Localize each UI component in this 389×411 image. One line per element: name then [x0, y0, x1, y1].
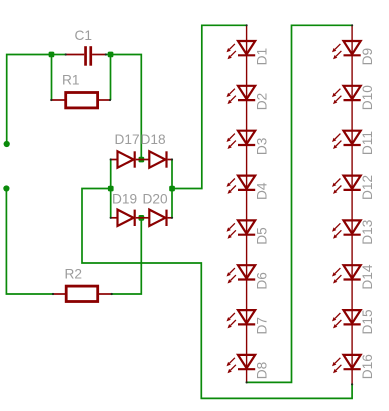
- junction: bridge top-middle node: [139, 157, 145, 163]
- LED D10: [332, 86, 361, 104]
- LED D8: [227, 355, 256, 373]
- wire: junction down to R1 left pin: [51, 55, 53, 101]
- wire: LED column 1 pins (D1-D8 lead): [246, 25, 248, 382]
- diode D18: [141, 151, 172, 167]
- LED D15: [332, 310, 361, 328]
- capacitor C1: [66, 46, 106, 65]
- svg-text:D14: D14: [360, 264, 375, 289]
- svg-text:D13: D13: [360, 219, 375, 244]
- wire: junction to C1 left pin: [52, 54, 66, 56]
- LED D12: [332, 176, 361, 194]
- svg-text:D11: D11: [360, 131, 375, 155]
- svg-text:D12: D12: [360, 175, 375, 200]
- node AC1 terminal: [4, 141, 10, 147]
- LED D5: [227, 220, 256, 238]
- svg-text:D7: D7: [254, 317, 269, 335]
- svg-text:D6: D6: [254, 272, 269, 290]
- LED D11: [332, 131, 361, 149]
- wire: R2 right pin to bridge bottom-middle: [112, 218, 142, 294]
- diode D17: [111, 151, 142, 167]
- junction: C1/R1 left node: [49, 52, 55, 58]
- wire DC-: bridge left node to D16 cathode return: [82, 189, 352, 399]
- LED D16: [332, 355, 361, 373]
- svg-text:D10: D10: [360, 85, 375, 110]
- svg-text:R2: R2: [65, 267, 83, 282]
- svg-text:D3: D3: [254, 137, 269, 155]
- wire DC+: bridge right node to D1 anode: [172, 25, 247, 188]
- LED D2: [227, 86, 256, 104]
- LED D9: [332, 41, 361, 59]
- LED D13: [332, 220, 361, 238]
- pin connection dots: [50, 24, 353, 385]
- wire: D8 cathode to D9 anode: [247, 25, 353, 382]
- wire: bridge left side vertical: [110, 160, 112, 218]
- wire AC1: terminal to C1/R1 left junction: [7, 55, 52, 145]
- junction: bridge bottom-middle node: [139, 215, 145, 221]
- node AC2 terminal: [3, 185, 9, 191]
- LED D14: [332, 265, 361, 283]
- diode D20: [141, 210, 172, 226]
- svg-text:D18: D18: [141, 132, 166, 147]
- diode D19: [111, 210, 142, 226]
- svg-text:R1: R1: [62, 73, 80, 88]
- svg-text:D16: D16: [360, 354, 375, 379]
- resistor R2: [53, 286, 112, 301]
- junction: bridge left node: [108, 186, 114, 192]
- wire: LED column 2 pins (D9-D16 lead): [351, 25, 353, 384]
- wire AC2: terminal down to R2 left pin: [6, 189, 53, 295]
- LED D3: [227, 131, 256, 149]
- wire: C1 right pin to junction to bridge top-middle: [106, 55, 142, 160]
- LED D4: [227, 176, 256, 194]
- junction: C1/R1 right node: [108, 52, 114, 58]
- LED D7: [227, 310, 256, 328]
- svg-text:C1: C1: [75, 28, 93, 43]
- svg-text:D17: D17: [115, 132, 140, 147]
- svg-text:D19: D19: [112, 192, 137, 207]
- svg-text:D5: D5: [254, 227, 269, 245]
- svg-text:D20: D20: [143, 192, 168, 207]
- svg-text:D8: D8: [254, 361, 269, 379]
- svg-text:D4: D4: [254, 182, 269, 200]
- resistor R1: [51, 93, 110, 108]
- svg-text:D1: D1: [254, 48, 269, 66]
- wire: bridge right side vertical: [171, 160, 173, 218]
- svg-text:D15: D15: [360, 309, 375, 334]
- wire: junction down to R1 right pin: [110, 55, 112, 101]
- LED D1: [227, 41, 256, 59]
- svg-text:D9: D9: [360, 48, 375, 66]
- svg-text:D2: D2: [254, 93, 269, 111]
- LED D6: [227, 265, 256, 283]
- junction: bridge right node: [169, 186, 175, 192]
